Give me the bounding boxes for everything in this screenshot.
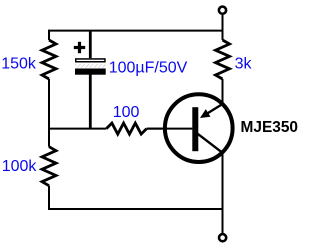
svg-text:MJE350: MJE350 xyxy=(241,119,299,136)
svg-text:3k: 3k xyxy=(235,56,253,73)
svg-text:150k: 150k xyxy=(1,56,37,73)
svg-text:100: 100 xyxy=(113,104,140,121)
svg-text:100µF/50V: 100µF/50V xyxy=(109,60,188,77)
svg-text:100k: 100k xyxy=(2,158,38,175)
